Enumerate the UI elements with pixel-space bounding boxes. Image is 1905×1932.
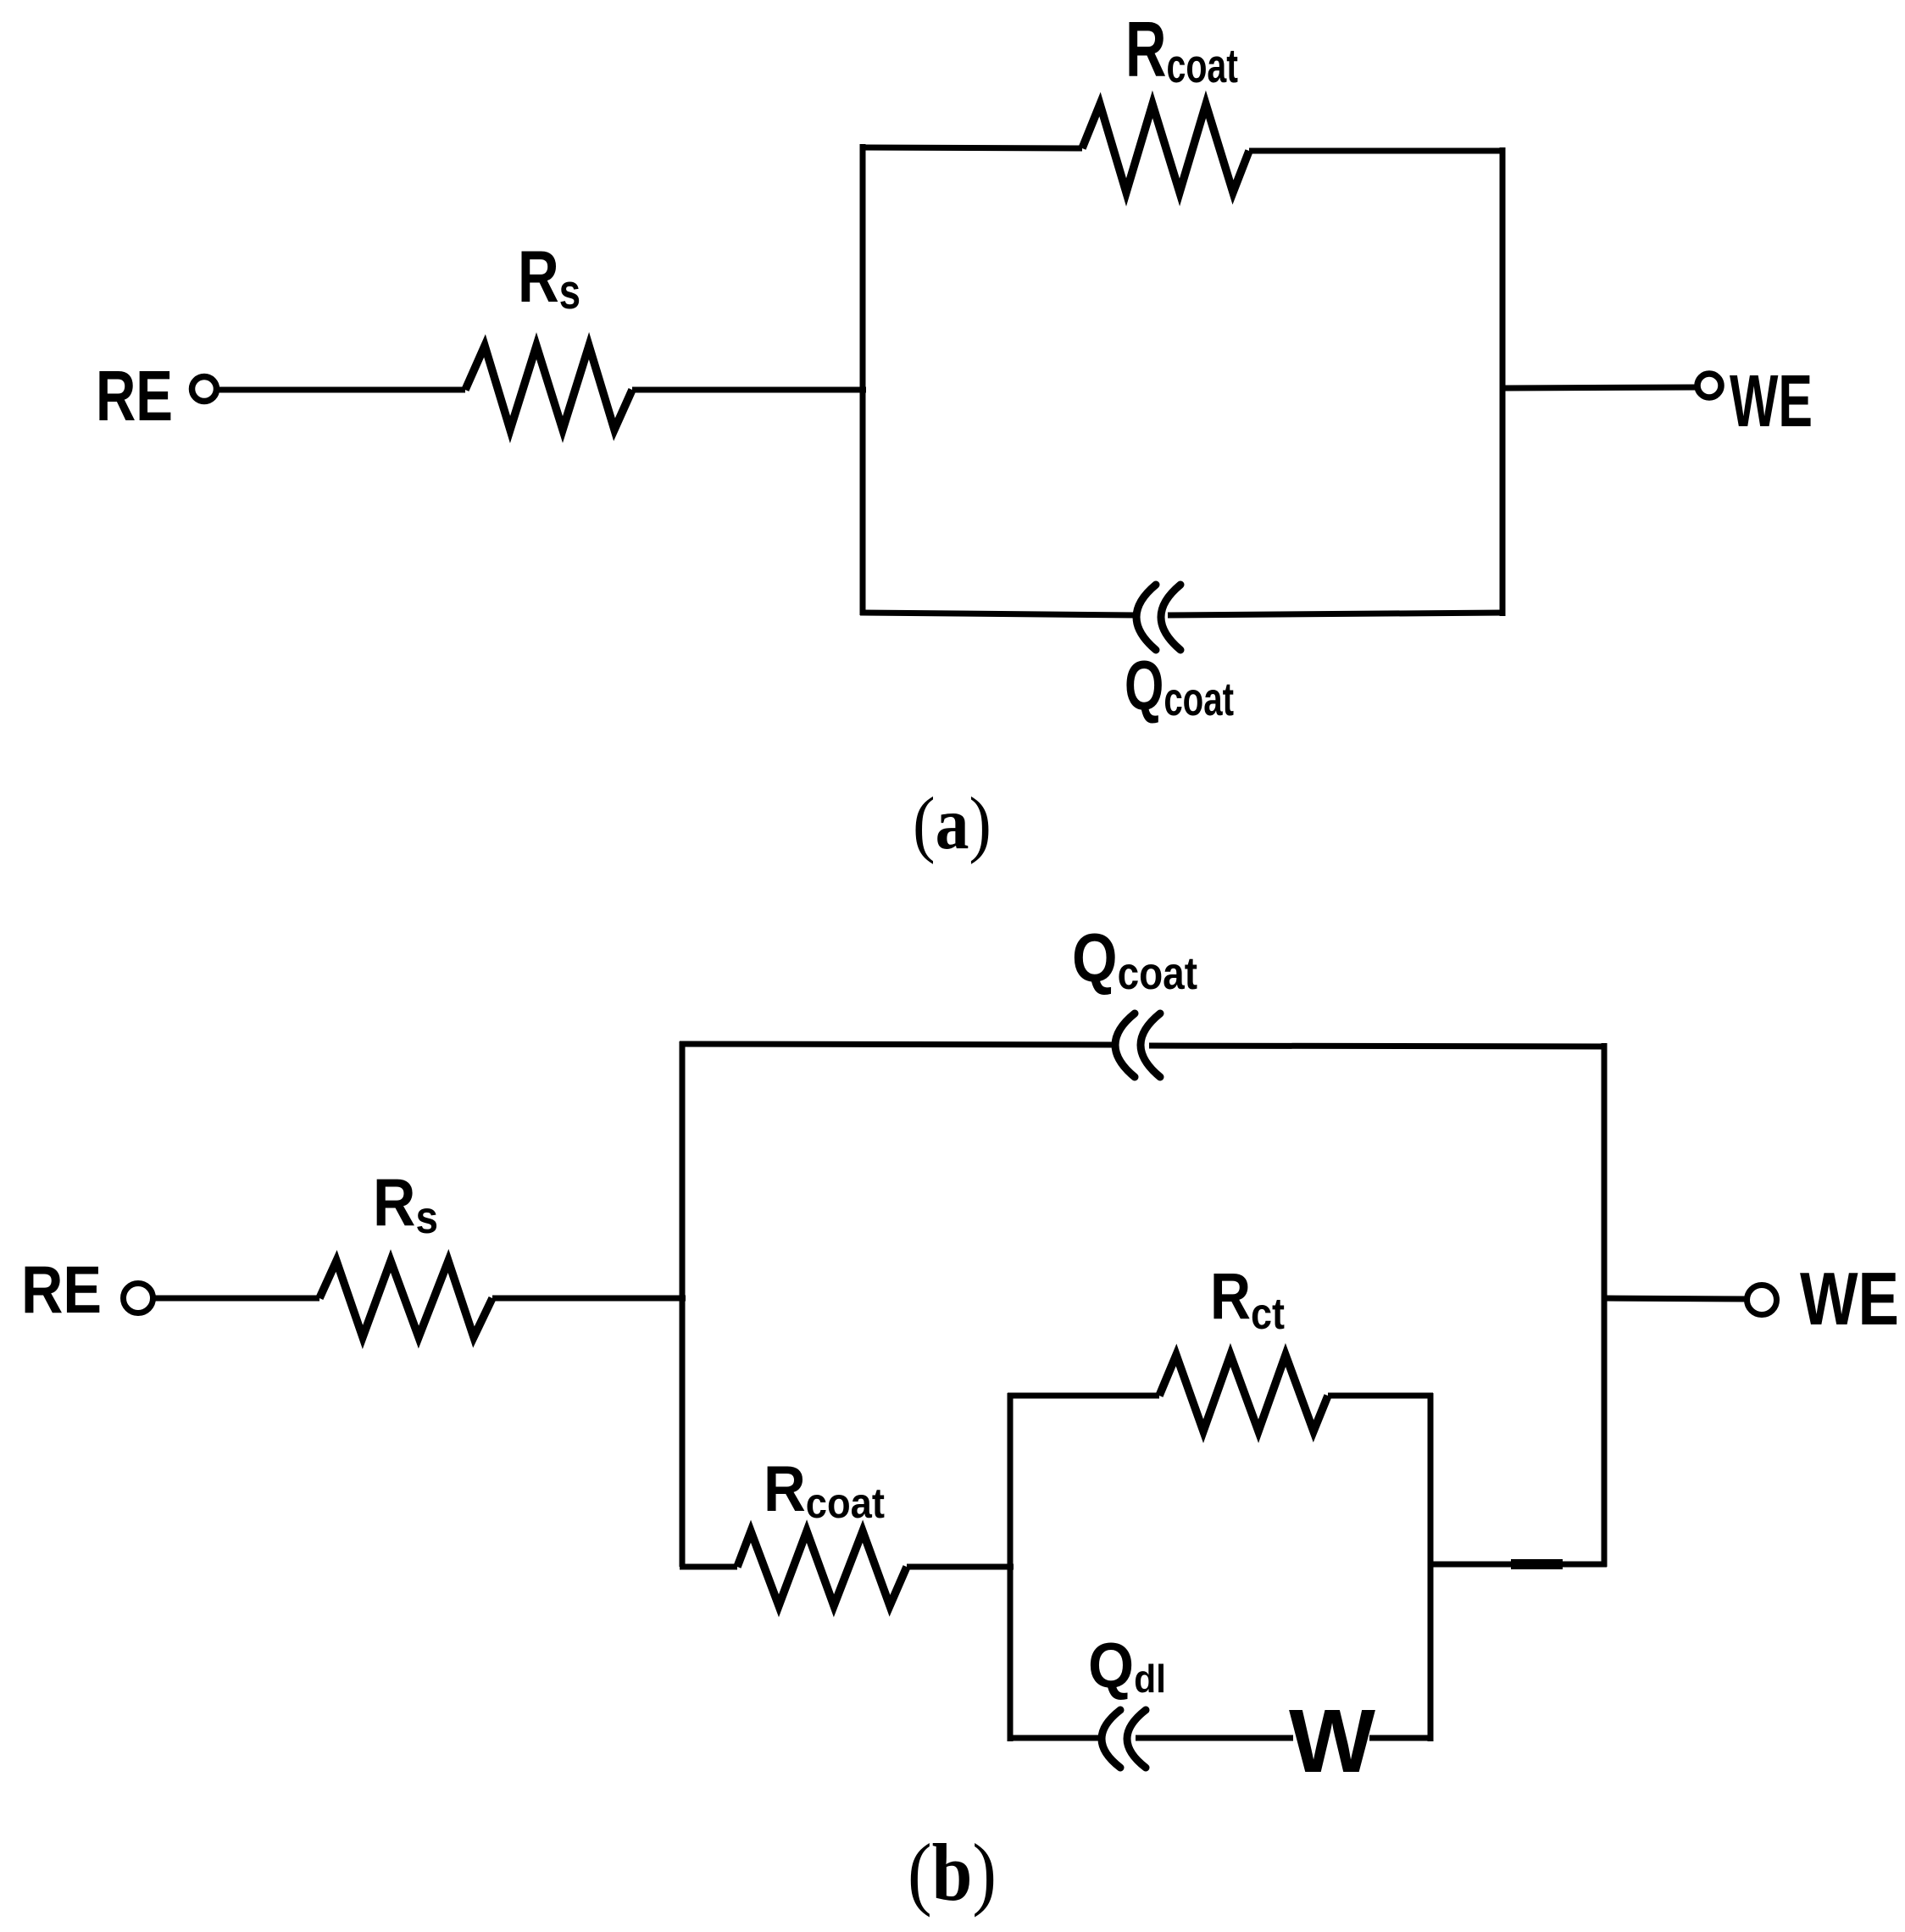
capacitor CPE Qcoat (a) [1136,585,1180,650]
wire Rcoat to inner box (b) [907,1564,1014,1570]
wire inner right vertical (b) [1428,1393,1434,1741]
node RE terminal (a) [192,377,217,402]
svg-text:RE: RE [21,1252,102,1327]
wire left branch vertical (a) [860,144,866,615]
wire right branch vertical (b) [1602,1043,1608,1567]
resistor Rcoat (a) [1082,104,1249,192]
svg-text:WE: WE [1800,1257,1899,1341]
wire top branch right (a) [1249,148,1505,154]
resistor Rs (b) [319,1261,492,1337]
wire bottom branch left (b) [680,1564,737,1570]
resistor Rcoat (b) [737,1531,907,1606]
wire WE tap (a) [1502,387,1697,388]
node WE terminal (b) [1747,1285,1777,1315]
wire inner bottom mid (b) [1136,1735,1293,1741]
capacitor CPE Qcoat (b) [1115,1013,1160,1077]
wire inner top right (b) [1328,1393,1433,1399]
junction overlap segment (b) [1511,1559,1563,1569]
resistor Rs (a) [465,346,632,430]
wire Rs to node (a) [632,387,866,393]
capacitor CPE Qdl (b) [1102,1710,1146,1768]
svg-text:(b): (b) [908,1827,997,1918]
wire right branch vertical (a) [1500,147,1506,616]
wire inner top left (b) [1008,1393,1159,1399]
wire bottom branch right (a) [1168,613,1505,615]
svg-text:WE: WE [1730,360,1813,442]
svg-text:W: W [1289,1691,1375,1791]
wire top branch right (b) [1149,1046,1607,1046]
svg-text:RE: RE [96,356,173,436]
wire Rs to node (b) [492,1296,686,1302]
wire inner box to right branch (b) [1430,1562,1607,1568]
wire top branch left (b) [680,1044,1114,1045]
wire inner bottom right (b) [1369,1735,1433,1741]
wire RE to Rs (a) [218,387,465,393]
node RE terminal (b) [124,1284,153,1313]
wire WE tap (b) [1604,1298,1747,1299]
wire RE to Rs (b) [153,1296,319,1302]
wire inner left vertical (b) [1008,1393,1014,1741]
wire top branch left (a) [860,147,1082,148]
wire bottom branch left (a) [860,613,1136,615]
wire node branch vertical (b) [680,1041,686,1567]
wire inner bottom left (b) [1008,1735,1102,1741]
svg-text:(a): (a) [913,783,991,865]
node WE terminal (a) [1697,374,1721,397]
resistor Rct (b) [1159,1355,1328,1431]
